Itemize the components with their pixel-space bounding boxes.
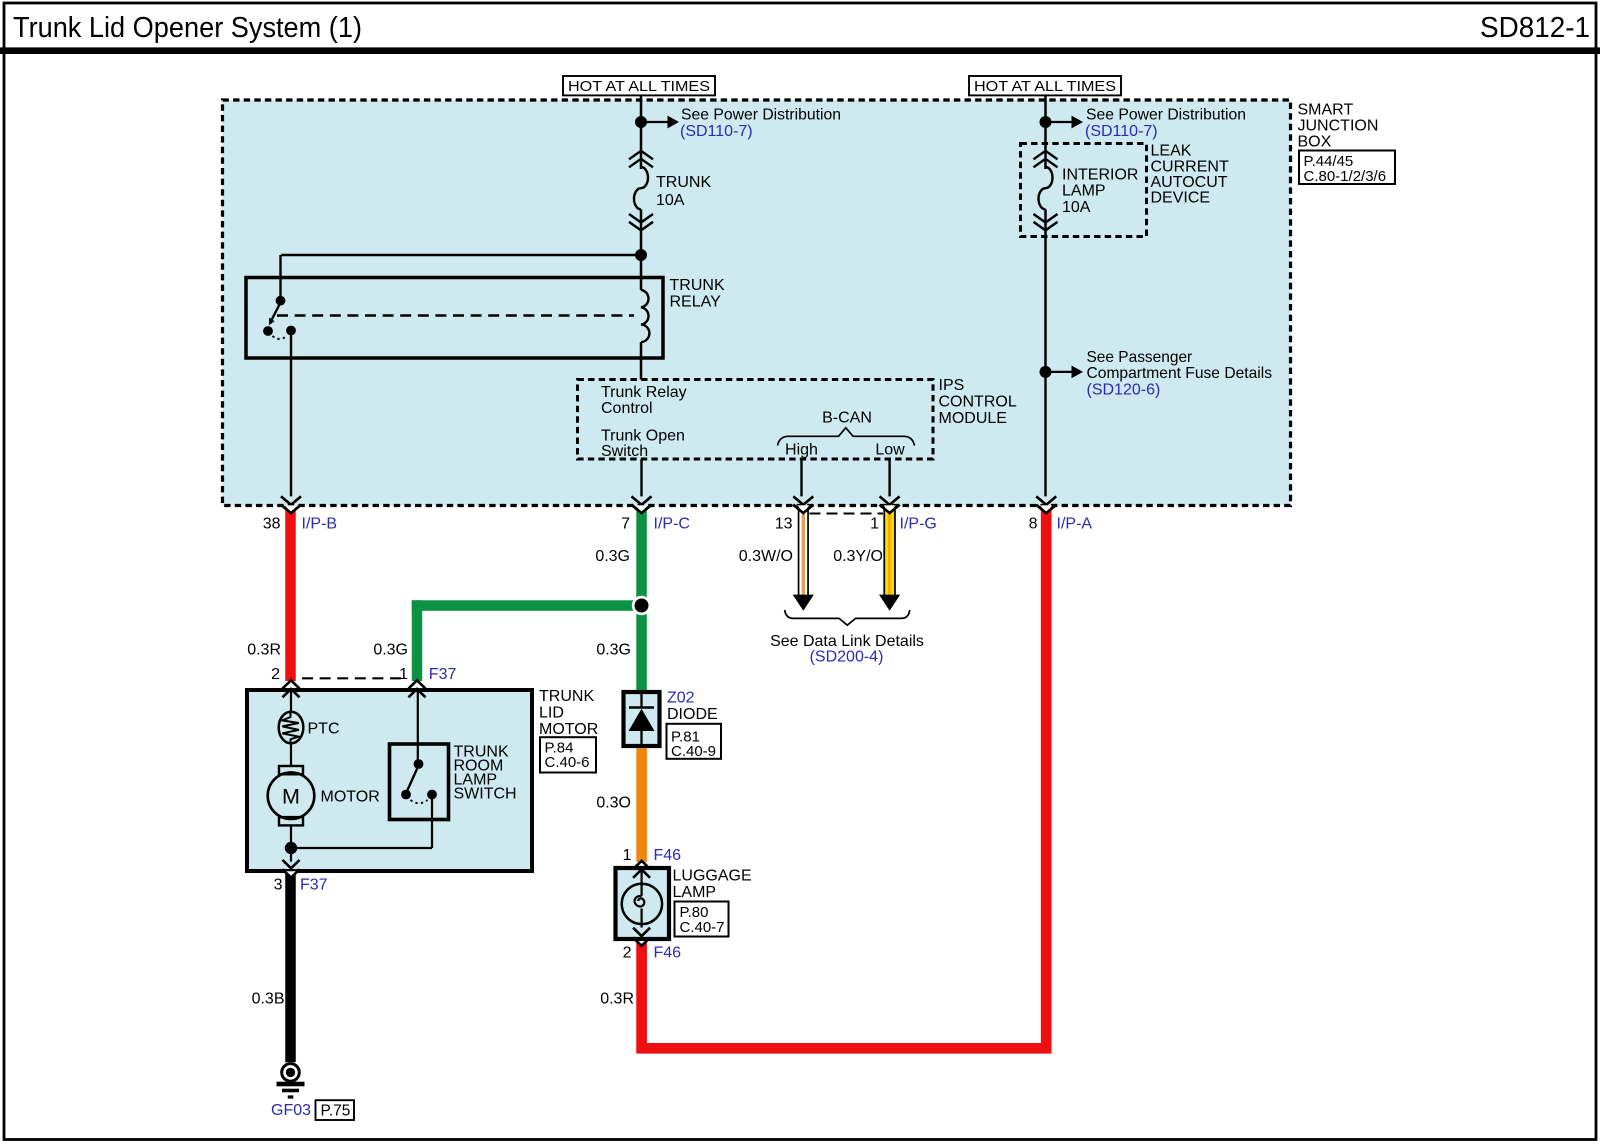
- relay internal dashed link: [277, 314, 634, 316]
- connector pin 38 arrows: [281, 496, 301, 504]
- hot at all times label (right): [969, 76, 1121, 95]
- wire 0.3O diode to lamp: [636, 748, 647, 862]
- motor pin 3 exit arrows: [290, 829, 292, 867]
- relay coil: [641, 290, 649, 342]
- svg-text:MOTOR: MOTOR: [539, 721, 598, 738]
- switch top contact: [414, 759, 424, 769]
- wire: right power feed vertical: [1044, 95, 1047, 169]
- node: left power junction: [635, 116, 647, 128]
- luggage lamp box: [616, 868, 670, 939]
- relay switch dotted travel arc: [273, 336, 287, 339]
- switch dotted travel arc: [411, 800, 428, 803]
- svg-text:13: 13: [775, 516, 793, 533]
- svg-text:DIODE: DIODE: [667, 706, 718, 723]
- svg-text:0.3W/O: 0.3W/O: [739, 548, 793, 565]
- switch contact left: [401, 790, 411, 800]
- fuse TRUNK 10A: [629, 151, 653, 160]
- title separator bar: [0, 47, 1600, 54]
- svg-text:IPS: IPS: [939, 377, 965, 394]
- svg-text:10A: 10A: [656, 192, 685, 209]
- trunk lid motor ref box: [540, 737, 596, 772]
- wire 0.3G pin7 down to diode: [636, 505, 647, 690]
- svg-text:TRUNK: TRUNK: [670, 277, 725, 294]
- svg-text:LAMP: LAMP: [1062, 182, 1106, 199]
- svg-text:F46: F46: [654, 944, 682, 961]
- svg-text:PTC: PTC: [308, 720, 340, 737]
- svg-text:7: 7: [621, 516, 630, 533]
- svg-text:JUNCTION: JUNCTION: [1298, 117, 1379, 134]
- svg-text:Control: Control: [601, 400, 653, 417]
- motor brush top: [279, 766, 303, 774]
- data link arrow (low): [879, 595, 900, 611]
- wire: relay switch to pin 38: [290, 333, 292, 496]
- svg-text:CONTROL: CONTROL: [939, 394, 1017, 411]
- trunk room lamp switch box: [390, 744, 449, 820]
- diode symbol: [640, 690, 642, 708]
- svg-text:B-CAN: B-CAN: [822, 410, 872, 427]
- wire: left power feed vertical: [640, 95, 643, 169]
- svg-text:P.75: P.75: [321, 1102, 351, 1119]
- wire: junction to pin 8: [1044, 372, 1046, 497]
- svg-text:(SD200-4): (SD200-4): [810, 649, 884, 666]
- svg-text:0.3Y/O: 0.3Y/O: [833, 548, 883, 565]
- svg-text:CURRENT: CURRENT: [1151, 158, 1229, 175]
- svg-text:10A: 10A: [1062, 199, 1091, 216]
- wire: trunk open switch to pin 7: [640, 459, 642, 496]
- svg-text:F37: F37: [300, 876, 328, 893]
- svg-text:See Passenger: See Passenger: [1087, 349, 1193, 366]
- wire: relay coil to IPS module: [640, 342, 643, 380]
- svg-text:C.80-1/2/3/6: C.80-1/2/3/6: [1304, 168, 1387, 185]
- svg-text:0.3R: 0.3R: [600, 990, 634, 1007]
- wire 0.3B to ground: [285, 871, 296, 1062]
- lamp pin 1 entry arrows: [633, 861, 650, 869]
- leak current autocut device box: [1021, 144, 1147, 237]
- svg-text:AUTOCUT: AUTOCUT: [1151, 174, 1228, 191]
- svg-text:MOTOR: MOTOR: [321, 788, 380, 805]
- svg-text:SWITCH: SWITCH: [454, 786, 517, 803]
- connector pin 1 arrows: [880, 496, 900, 504]
- smart junction box ref box: [1299, 151, 1395, 185]
- svg-text:1: 1: [399, 666, 408, 683]
- relay switch blade: [272, 303, 281, 320]
- svg-text:DEVICE: DEVICE: [1151, 190, 1211, 207]
- motor pin 2 entry arrows: [283, 680, 300, 688]
- wire 0.3Y/O (yellow/orange): [883, 505, 895, 595]
- IPS control module box: [578, 380, 934, 460]
- connector pin 8 arrows: [1036, 496, 1056, 504]
- svg-text:See Power Distribution: See Power Distribution: [1086, 107, 1246, 124]
- lamp bulb circle: [622, 884, 662, 924]
- svg-text:I/P-G: I/P-G: [900, 516, 937, 533]
- svg-text:(SD110-7): (SD110-7): [680, 123, 753, 140]
- svg-text:TRUNK: TRUNK: [656, 174, 711, 191]
- svg-text:2: 2: [623, 944, 632, 961]
- ground GF03: [282, 1064, 300, 1082]
- relay switch contact left: [263, 326, 273, 336]
- svg-text:0.3G: 0.3G: [596, 642, 631, 659]
- svg-text:HOT AT ALL TIMES: HOT AT ALL TIMES: [974, 79, 1116, 95]
- wire: fuse to passenger junction: [1044, 209, 1047, 372]
- switch contact right: [427, 790, 437, 800]
- relay switch contact right: [286, 326, 296, 336]
- svg-text:M: M: [282, 784, 300, 808]
- lamp pin 2 exit arrows: [633, 928, 650, 936]
- svg-text:LAMP: LAMP: [673, 884, 717, 901]
- lamp notch over red: [636, 941, 647, 946]
- svg-text:C.40-9: C.40-9: [671, 743, 716, 760]
- svg-text:8: 8: [1029, 516, 1038, 533]
- svg-text:Trunk Lid Opener System (1): Trunk Lid Opener System (1): [13, 12, 362, 44]
- svg-text:SMART: SMART: [1298, 102, 1354, 119]
- svg-text:0.3R: 0.3R: [247, 642, 281, 659]
- hot at all times label (left): [563, 76, 715, 95]
- motor brush bottom: [279, 817, 303, 825]
- svg-text:F37: F37: [429, 666, 457, 683]
- svg-text:TRUNK: TRUNK: [539, 688, 594, 705]
- svg-text:SD812-1: SD812-1: [1480, 12, 1590, 44]
- connector pin 13 arrows: [793, 496, 813, 504]
- motor M circle: [268, 772, 315, 819]
- svg-text:High: High: [785, 441, 818, 458]
- svg-text:BOX: BOX: [1298, 133, 1332, 150]
- svg-text:I/P-B: I/P-B: [302, 516, 338, 533]
- arrow: see power distribution (right): [1046, 121, 1074, 123]
- svg-text:1: 1: [870, 516, 879, 533]
- svg-text:F46: F46: [654, 847, 682, 864]
- motor pin 1 entry arrows: [409, 680, 426, 688]
- wire: B-CAN high to pin 13: [800, 459, 802, 496]
- node: green junction: [632, 596, 651, 615]
- trunk lid motor box: [247, 690, 532, 871]
- connector pin 7 arrows: [632, 496, 652, 504]
- smart junction box (blue dashed area): [223, 100, 1291, 506]
- switch blade (room lamp): [408, 766, 419, 791]
- wire: horizontal to relay switch: [281, 254, 641, 257]
- svg-text:See Data Link Details: See Data Link Details: [770, 633, 924, 650]
- svg-text:RELAY: RELAY: [670, 294, 722, 311]
- svg-text:3: 3: [274, 876, 283, 893]
- diode ref box: [667, 724, 722, 759]
- svg-text:C.40-6: C.40-6: [545, 754, 590, 771]
- wire 0.3R pin8 long run: [642, 505, 1047, 1048]
- wire: B-CAN low to pin 1: [888, 459, 890, 496]
- svg-text:Compartment Fuse Details: Compartment Fuse Details: [1087, 365, 1273, 382]
- svg-text:0.3O: 0.3O: [596, 794, 631, 811]
- arrow: see power distribution (left): [641, 121, 669, 123]
- trunk relay box: [246, 278, 663, 359]
- svg-text:(SD110-7): (SD110-7): [1085, 123, 1158, 140]
- svg-text:2: 2: [271, 666, 280, 683]
- svg-text:See Power Distribution: See Power Distribution: [681, 107, 841, 124]
- wire: down to relay switch contact: [279, 255, 281, 299]
- svg-text:LEAK: LEAK: [1151, 143, 1192, 160]
- svg-text:GF03: GF03: [271, 1102, 311, 1119]
- dashed link pin13-pin1 connector: [810, 513, 884, 515]
- svg-text:Switch: Switch: [601, 443, 648, 460]
- svg-text:C.40-7: C.40-7: [680, 919, 725, 936]
- node: motor-switch junction: [285, 842, 297, 854]
- svg-text:I/P-C: I/P-C: [654, 516, 690, 533]
- ground ref box P.75: [316, 1100, 355, 1120]
- diode Z02 box: [624, 692, 660, 746]
- svg-text:HOT AT ALL TIMES: HOT AT ALL TIMES: [568, 79, 710, 95]
- wire junction to switch: [291, 847, 432, 849]
- node: junction above trunk relay: [635, 249, 647, 261]
- data link bracket: [785, 610, 910, 625]
- svg-text:Trunk Open: Trunk Open: [601, 427, 685, 444]
- svg-text:Low: Low: [875, 441, 905, 458]
- arrow: see passenger compartment: [1046, 371, 1074, 373]
- node: passenger fuse junction: [1040, 366, 1052, 378]
- svg-text:0.3B: 0.3B: [252, 990, 285, 1007]
- PTC thermistor: [279, 712, 304, 744]
- wire 0.3G branch down to motor pin 1: [412, 600, 423, 681]
- data link arrow (high): [793, 595, 814, 611]
- wire motor to junction: [290, 825, 292, 861]
- svg-text:38: 38: [263, 516, 281, 533]
- svg-text:1: 1: [623, 847, 632, 864]
- svg-text:0.3G: 0.3G: [373, 642, 408, 659]
- wire 0.3G horizontal branch: [412, 600, 647, 611]
- fuse INTERIOR LAMP 10A: [1034, 151, 1058, 160]
- svg-text:MODULE: MODULE: [939, 410, 1007, 427]
- wire PTC to motor: [290, 743, 292, 766]
- svg-text:(SD120-6): (SD120-6): [1087, 381, 1161, 398]
- svg-text:0.3G: 0.3G: [595, 548, 630, 565]
- relay switch top contact: [276, 296, 286, 306]
- svg-text:LUGGAGE: LUGGAGE: [673, 868, 752, 885]
- B-CAN bracket over High/Low: [778, 428, 915, 446]
- svg-text:I/P-A: I/P-A: [1057, 516, 1093, 533]
- wire 0.3R pin38 to motor: [285, 505, 296, 681]
- node: right power junction: [1040, 116, 1052, 128]
- luggage lamp ref box: [675, 902, 729, 937]
- svg-text:INTERIOR: INTERIOR: [1062, 167, 1138, 184]
- motor pin 2 dashed connector link: [302, 677, 402, 679]
- svg-text:Z02: Z02: [667, 690, 695, 707]
- wire 0.3W/O (white/orange): [798, 505, 809, 595]
- lamp filament: [635, 896, 645, 907]
- svg-text:Trunk Relay: Trunk Relay: [601, 384, 687, 401]
- svg-text:LID: LID: [539, 704, 564, 721]
